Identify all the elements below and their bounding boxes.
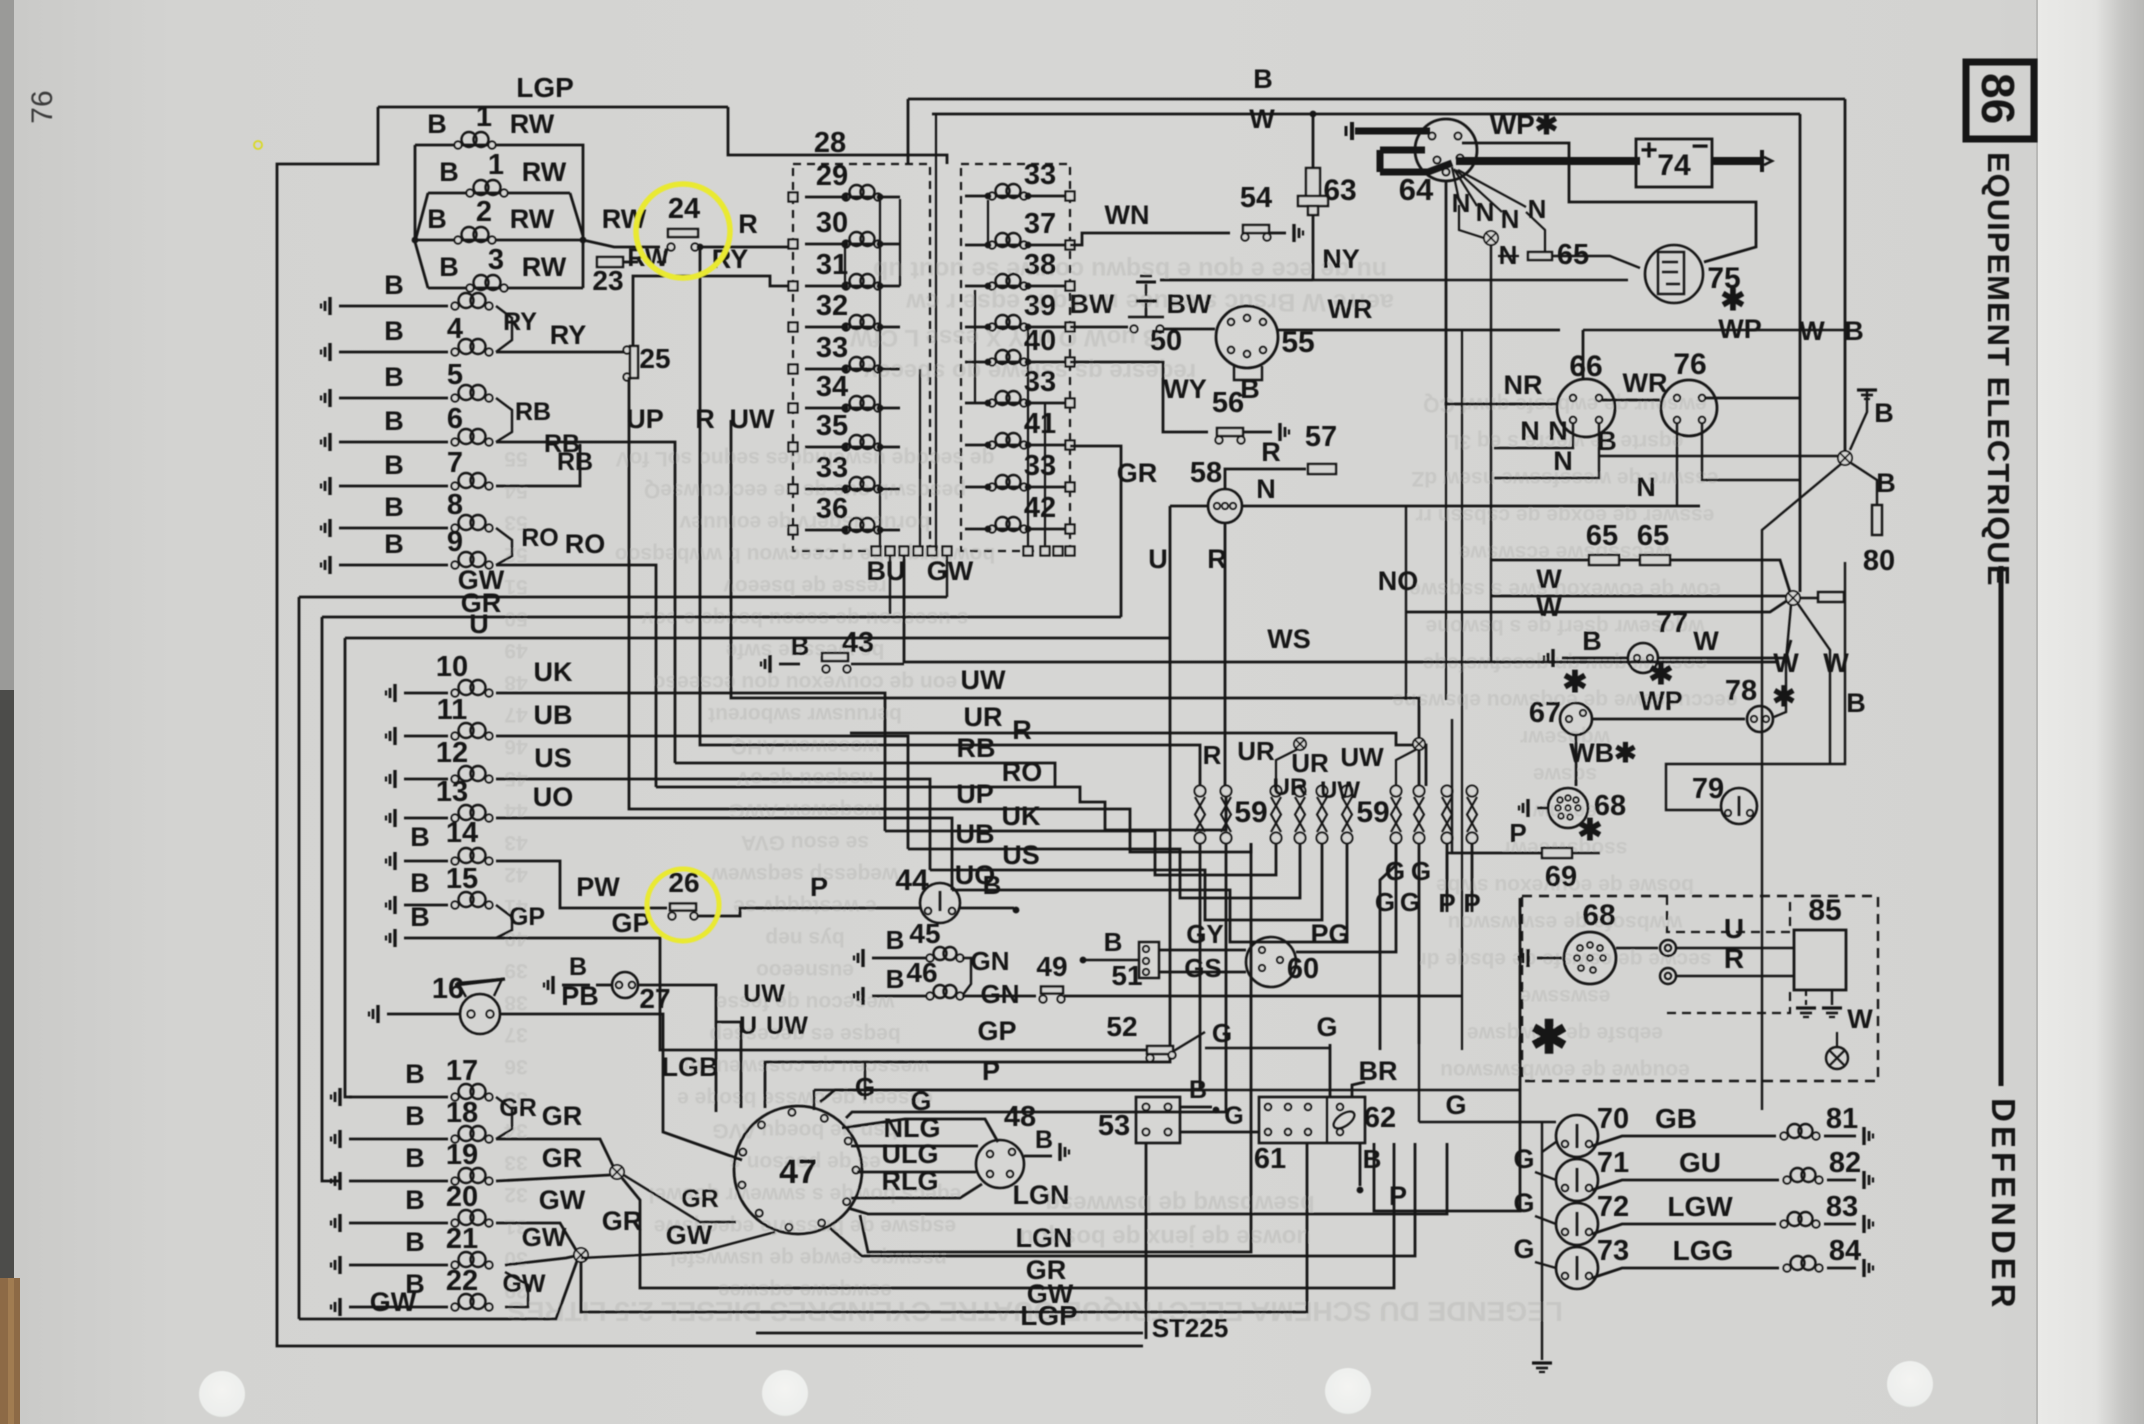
svg-text:34: 34	[816, 371, 848, 403]
svg-text:eon qe couvexou qou ecseeso: eon qe couvexou qou ecseeso	[653, 671, 958, 694]
fuse 20 row	[338, 1214, 341, 1232]
wire G riser to 61	[1329, 1044, 1332, 1097]
alternator 66	[1557, 379, 1615, 437]
svg-text:18: 18	[446, 1097, 478, 1129]
wire GR from 18/19 to junction	[496, 1139, 613, 1166]
punch hole 3	[1325, 1368, 1371, 1414]
left bus verticals	[298, 597, 301, 1319]
svg-text:P: P	[1463, 888, 1480, 918]
wire B to fuse 80	[1851, 463, 1877, 505]
fuse 45 row	[861, 949, 864, 967]
svg-text:eow qe eowexou swe s ssqswe: eow qe eowexou swe s ssqswe	[1409, 578, 1721, 601]
svg-text:65: 65	[1586, 520, 1618, 552]
svg-text:WP✱: WP✱	[1490, 109, 1559, 140]
fuse 21 row	[338, 1256, 341, 1274]
wire WN from block to ground	[1070, 233, 1230, 245]
svg-text:5: 5	[447, 359, 463, 391]
thick feed bar to 64	[1350, 122, 1354, 140]
svg-text:B: B	[886, 964, 905, 994]
wire ST225 from 53 down	[1145, 1143, 1148, 1339]
wire B from 66 to junction	[1599, 455, 1843, 457]
wire UO stack	[952, 843, 1347, 942]
svg-text:76: 76	[26, 90, 59, 123]
push switch 50	[1130, 325, 1137, 332]
junction X of W wires	[1786, 591, 1800, 605]
ground B right	[1857, 388, 1877, 391]
svg-text:59: 59	[1356, 796, 1389, 829]
wire B from 53	[1180, 1106, 1212, 1109]
wire R to fuse 57	[1225, 469, 1306, 490]
svg-text:GP: GP	[977, 1016, 1016, 1046]
connector 43 with B feed	[768, 655, 771, 673]
svg-text:U: U	[1148, 544, 1168, 574]
svg-text:ST225: ST225	[1152, 1313, 1229, 1343]
wire GR bottom from 47	[622, 1143, 1394, 1288]
dashed fuse block (right)	[961, 164, 1070, 551]
wire down from junction X	[1762, 464, 1841, 1110]
svg-text:85: 85	[1808, 894, 1841, 927]
svg-text:GR: GR	[681, 1185, 719, 1213]
svg-text:N: N	[1501, 204, 1520, 234]
wire WP* from 64	[1462, 143, 1756, 262]
svg-text:WS: WS	[1267, 624, 1311, 654]
junction X bottom-left	[574, 1248, 588, 1262]
svg-text:BU: BU	[867, 556, 906, 586]
svg-text:72: 72	[1597, 1191, 1629, 1223]
svg-text:GW: GW	[666, 1220, 713, 1250]
thick bar 64 to battery 74	[1456, 157, 1640, 165]
wire WR 66 to 76	[1602, 399, 1660, 402]
svg-text:✱: ✱	[1720, 284, 1745, 317]
svg-text:RY: RY	[712, 244, 749, 274]
N fan-out from 64	[1452, 167, 1459, 200]
svg-text:B: B	[405, 1227, 425, 1257]
wires W down to sender 78	[1774, 605, 1791, 717]
wire WS	[904, 556, 1779, 662]
grounds under 85	[1805, 990, 1807, 1005]
svg-text:R: R	[1207, 544, 1227, 574]
svg-text:13: 13	[436, 776, 468, 808]
wire GW into 47 bottom	[581, 1232, 775, 1258]
svg-text:30: 30	[816, 207, 848, 239]
svg-text:UW: UW	[766, 1012, 808, 1040]
coil 81 and ground	[1788, 1124, 1802, 1138]
fuse 35 in block 28	[805, 446, 900, 449]
svg-text:46: 46	[504, 735, 527, 758]
svg-text:GW: GW	[927, 556, 974, 586]
svg-text:24: 24	[668, 193, 700, 225]
svg-text:✱: ✱	[1577, 814, 1602, 847]
svg-text:46: 46	[906, 957, 937, 988]
svg-text:weqessp seqswew: weqessp seqswew	[711, 863, 899, 886]
thick loop bar	[1380, 147, 1425, 154]
svg-text:86: 86	[1972, 73, 2024, 124]
svg-text:EQUIPEMENT ELECTRIQUE: EQUIPEMENT ELECTRIQUE	[1981, 152, 2016, 586]
fuse 19 row	[338, 1172, 341, 1190]
svg-text:RW: RW	[522, 157, 567, 187]
svg-text:R: R	[1203, 740, 1222, 770]
ignition switch 55	[1216, 306, 1278, 368]
wire U down to lamp unit 47	[638, 985, 716, 1112]
svg-text:−: −	[1691, 130, 1709, 163]
wire LGW 72 to coil 83	[1592, 1224, 1776, 1234]
svg-text:bys nep: bys nep	[765, 927, 844, 950]
svg-text:B: B	[384, 406, 404, 436]
wire GW return to boundary	[299, 1261, 577, 1319]
fuse 33 in right block	[965, 486, 1070, 489]
bracket 17-18 GR	[496, 1097, 512, 1139]
wire NY	[1160, 279, 1313, 282]
fuse row 1b	[428, 192, 570, 195]
wire GY 51-60	[1159, 949, 1246, 952]
wire U from 58 into 47	[765, 506, 1170, 1108]
wire UW down to lamp unit 47	[716, 1022, 741, 1108]
svg-text:8: 8	[447, 489, 463, 521]
wires from 76 down	[1676, 424, 1678, 506]
yellow dot top-left	[254, 141, 262, 149]
wire UR stack	[850, 733, 1426, 786]
wire BR from 62	[1352, 1082, 1365, 1097]
svg-text:GR: GR	[602, 1206, 643, 1236]
svg-text:47: 47	[504, 703, 527, 726]
svg-text:77: 77	[1656, 607, 1688, 639]
svg-text:82: 82	[1829, 1147, 1861, 1179]
svg-text:54: 54	[1240, 182, 1272, 214]
wire N from 58 region	[1242, 505, 1700, 508]
fuse 33 in right block	[965, 402, 1070, 405]
svg-text:RB: RB	[957, 733, 996, 763]
wire from 64 area down to alternator 66	[1446, 181, 1558, 404]
svg-text:ULG: ULG	[882, 1139, 939, 1169]
svg-text:GW: GW	[539, 1185, 586, 1215]
wire R with ring terminal	[1660, 968, 1676, 984]
svg-text:G: G	[1411, 856, 1431, 886]
svg-text:LGB: LGB	[662, 1052, 719, 1082]
wires N under 66	[1494, 424, 1573, 448]
wire GW from 21 through junction	[505, 1256, 575, 1265]
svg-text:LGG: LGG	[1673, 1235, 1734, 1266]
svg-text:64: 64	[1399, 172, 1434, 207]
fuse 17 row	[338, 1088, 341, 1106]
lamp 70	[1556, 1115, 1598, 1157]
wire from 65 to regulator 75	[1552, 256, 1640, 268]
svg-text:16: 16	[432, 973, 464, 1005]
fuse 14 row	[393, 852, 396, 870]
svg-text:60: 60	[1287, 953, 1319, 985]
sender 77	[1551, 649, 1554, 667]
svg-text:R: R	[1724, 943, 1744, 974]
svg-text:GS: GS	[1184, 953, 1222, 983]
svg-text:62: 62	[1364, 1102, 1396, 1134]
svg-text:WR: WR	[1328, 294, 1373, 324]
svg-text:esswer qe eoxqe qe csbssn rr: esswer qe eoxqe qe csbssn rr	[1416, 504, 1715, 527]
connector 69	[1542, 848, 1572, 858]
svg-text:N: N	[1548, 416, 1568, 446]
svg-text:W: W	[1847, 1004, 1873, 1034]
svg-text:GR: GR	[542, 1143, 583, 1173]
block bottom terminals	[872, 547, 881, 556]
fuse 33 in right block	[965, 195, 1070, 198]
svg-text:✱: ✱	[1562, 666, 1587, 699]
spark/glow plug 63	[1312, 114, 1315, 168]
svg-text:69: 69	[1545, 861, 1577, 893]
wire R from switch 24 to fuse block row 30	[699, 246, 793, 249]
svg-text:B: B	[384, 492, 404, 522]
fuse group 1-3 left bracket	[414, 145, 417, 240]
svg-text:RW: RW	[627, 244, 669, 272]
wire UW stack	[731, 420, 1419, 786]
svg-text:RW: RW	[510, 204, 555, 234]
fuse 29 in block 28	[805, 196, 900, 199]
svg-text:11: 11	[437, 694, 468, 726]
svg-text:NO: NO	[1378, 566, 1419, 596]
fuse 8 row	[328, 519, 331, 537]
svg-text:37: 37	[1024, 208, 1056, 240]
wire UK stack	[885, 831, 1276, 875]
svg-text:84: 84	[1829, 1235, 1861, 1267]
wire UB stack	[908, 843, 1300, 898]
svg-text:14: 14	[446, 817, 478, 849]
svg-text:BW: BW	[1167, 289, 1212, 319]
svg-text:GW: GW	[370, 1287, 417, 1317]
wires P P below connectors	[1446, 843, 1449, 912]
wire LGP bottom	[756, 1332, 1143, 1335]
wire GW bottom	[581, 1143, 1307, 1312]
svg-text:B: B	[569, 953, 587, 981]
svg-text:B: B	[1874, 398, 1894, 428]
punch hole 4	[1887, 1361, 1933, 1407]
svg-text:15: 15	[446, 863, 478, 895]
wire GU 71 to coil 82	[1592, 1180, 1779, 1190]
svg-text:W: W	[1249, 104, 1275, 134]
bus B top	[908, 98, 1845, 101]
connector group 59 (left)	[1195, 786, 1206, 797]
svg-text:53: 53	[1098, 1110, 1130, 1142]
svg-text:54: 54	[504, 479, 528, 502]
svg-text:UR: UR	[1237, 736, 1275, 766]
svg-text:UW: UW	[743, 980, 785, 1008]
svg-text:B: B	[410, 822, 430, 852]
svg-text:68: 68	[1582, 899, 1615, 932]
svg-text:43: 43	[504, 831, 527, 854]
svg-text:35: 35	[816, 410, 848, 442]
svg-text:WR: WR	[1623, 368, 1668, 398]
svg-text:22: 22	[446, 1265, 478, 1297]
wire from 58 to U riser	[1170, 505, 1208, 508]
svg-text:47: 47	[779, 1153, 817, 1191]
svg-text:GU: GU	[1679, 1147, 1721, 1178]
wire LGN lower from 47	[830, 1143, 1415, 1256]
svg-text:71: 71	[1597, 1147, 1629, 1179]
fuse 11 row with UB output	[393, 727, 396, 745]
connector 25	[623, 346, 630, 353]
wire G from 52	[1205, 1047, 1330, 1049]
svg-text:✱: ✱	[1648, 658, 1673, 691]
wire RW from fuse group to switch 24	[583, 240, 660, 247]
svg-text:55: 55	[504, 447, 528, 470]
svg-text:B: B	[410, 868, 430, 898]
svg-text:66: 66	[1569, 350, 1602, 383]
svg-text:23: 23	[592, 265, 623, 296]
wire BW from block row 39	[1070, 326, 1128, 329]
svg-text:UK: UK	[534, 657, 573, 687]
svg-text:79: 79	[1692, 773, 1724, 805]
svg-text:7: 7	[447, 447, 463, 479]
punch hole 1	[199, 1371, 245, 1417]
fuse 30 in block 28	[805, 243, 900, 246]
wire RB from 6/7 to stack	[496, 442, 675, 763]
junction X GR bottom-left	[610, 1165, 624, 1179]
svg-text:W: W	[1536, 592, 1562, 622]
svg-text:beruuswr swboreut: beruuswr swboreut	[708, 703, 902, 726]
thick bar battery to terminal	[1712, 157, 1762, 165]
wire PG from 60	[1296, 843, 1396, 952]
svg-text:se esou GVA: se esou GVA	[741, 831, 869, 854]
wire W from 76 to W bus	[1704, 397, 1800, 400]
svg-text:49: 49	[504, 639, 527, 662]
regulator 75	[1645, 245, 1703, 303]
svg-text:B: B	[405, 1185, 425, 1215]
fuse 32 in block 28	[805, 326, 900, 329]
bus LGP top with label	[378, 106, 728, 109]
yellow highlighter circle around switch 26	[647, 869, 719, 941]
ground at bottom of feeder	[1532, 1361, 1552, 1364]
svg-text:56: 56	[1212, 387, 1244, 419]
fuse row B (above 4) with ground	[328, 297, 331, 315]
svg-text:P: P	[1509, 818, 1526, 848]
svg-text:81: 81	[1826, 1103, 1858, 1135]
svg-text:resse qe bseeov: resse qe bseeov	[723, 575, 887, 598]
wire GW from 20	[496, 1223, 576, 1250]
svg-text:27: 27	[639, 983, 670, 1014]
outer boundary of harness (left/bottom frame)	[277, 107, 1143, 1346]
svg-text:N: N	[1256, 474, 1276, 504]
svg-text:37: 37	[504, 1023, 527, 1046]
inner dashed bracket lower	[1667, 990, 1790, 1013]
svg-text:BR: BR	[1359, 1056, 1398, 1086]
fuse 15 row upper	[393, 896, 396, 914]
wire B from 62 down	[1359, 1143, 1362, 1186]
svg-text:GP: GP	[509, 903, 545, 931]
svg-text:36: 36	[816, 493, 848, 525]
wire US stack	[930, 843, 1322, 920]
svg-text:B: B	[1189, 1076, 1207, 1104]
svg-text:UW: UW	[730, 404, 775, 434]
punch hole 2	[762, 1370, 808, 1416]
svg-text:B: B	[1363, 1144, 1382, 1174]
fuse 12 row with US output	[393, 770, 396, 788]
svg-text:wwbsofe qe eswwswou: wwbsofe qe eswwswou	[1448, 911, 1684, 934]
relay 61/62	[1259, 1097, 1365, 1143]
svg-text:G: G	[1316, 1012, 1337, 1042]
fuse 22 row	[338, 1298, 341, 1316]
svg-text:UK: UK	[1002, 801, 1041, 831]
svg-text:PG: PG	[1310, 919, 1349, 949]
bus GW left	[299, 596, 947, 599]
svg-text:G: G	[1224, 1102, 1243, 1130]
svg-text:B: B	[1844, 316, 1864, 346]
wire RO stack	[656, 786, 1226, 830]
svg-text:B: B	[427, 204, 447, 234]
wire U with ring terminals	[1616, 947, 1658, 949]
svg-text:B: B	[405, 1143, 425, 1173]
svg-text:N: N	[1636, 472, 1656, 502]
fuse 9 row	[328, 556, 331, 574]
fuse row 3	[428, 287, 583, 290]
svg-text:RO: RO	[521, 524, 559, 552]
svg-text:LGN: LGN	[1013, 1180, 1070, 1210]
wire P from 26 to instrument 44	[697, 908, 921, 916]
svg-text:50: 50	[504, 607, 527, 630]
svg-text:N: N	[1553, 446, 1573, 476]
svg-text:RB: RB	[515, 398, 551, 426]
connector 59 riser hooks	[1276, 748, 1300, 786]
svg-text:21: 21	[446, 1223, 478, 1255]
fuse 15 row lower with GP output	[393, 929, 396, 947]
fuse row 2	[415, 239, 583, 242]
wire RY riser from connector 25	[633, 276, 793, 348]
svg-text:B: B	[983, 870, 1002, 900]
svg-text:GR: GR	[1117, 458, 1158, 488]
svg-text:33: 33	[504, 1151, 527, 1174]
wires W W to junction	[1491, 595, 1786, 598]
fuse 33 in block 28	[805, 368, 900, 371]
wire R stack	[700, 247, 1200, 786]
svg-text:WN: WN	[1105, 200, 1150, 230]
svg-text:US: US	[534, 743, 572, 773]
bus U left	[345, 637, 1170, 640]
svg-text:B: B	[1035, 1126, 1053, 1154]
wire B to 51	[1080, 957, 1087, 964]
svg-text:25: 25	[639, 343, 670, 374]
svg-text:4: 4	[447, 313, 463, 345]
svg-text:43: 43	[842, 627, 874, 659]
multi-pin connector 68	[1526, 799, 1529, 817]
fuse 36 in block 28	[805, 529, 900, 532]
fuse 13 row with UO output	[393, 809, 396, 827]
svg-text:73: 73	[1597, 1235, 1629, 1267]
svg-text:12: 12	[436, 737, 468, 769]
wire B ground from 48	[1024, 1155, 1052, 1158]
wire LGG 73 to coil 84	[1592, 1268, 1779, 1278]
svg-text:G: G	[1400, 887, 1420, 917]
svg-text:29: 29	[816, 160, 848, 192]
svg-text:RY: RY	[503, 308, 537, 336]
svg-text:W: W	[1536, 564, 1562, 594]
svg-text:67: 67	[1529, 697, 1561, 729]
fuse 10 row with UK output	[393, 684, 396, 702]
svg-text:R: R	[738, 209, 758, 239]
svg-text:eusneeoo: eusneeoo	[756, 959, 854, 982]
svg-text:G: G	[1375, 887, 1395, 917]
fuse 38 in right block	[965, 285, 1070, 288]
svg-text:UR: UR	[964, 702, 1003, 732]
wire GR from 19 to junction	[496, 1175, 610, 1181]
svg-text:B: B	[791, 631, 810, 661]
svg-text:31: 31	[816, 249, 848, 281]
svg-text:38: 38	[1024, 249, 1056, 281]
fuse 80	[1872, 505, 1882, 535]
wire G from 53 to 61	[1180, 1131, 1259, 1134]
svg-text:RB: RB	[557, 448, 593, 476]
svg-text:RY: RY	[550, 320, 587, 350]
wire G feeder vertical	[1541, 1122, 1543, 1360]
svg-text:B: B	[405, 1101, 425, 1131]
svg-text:U: U	[469, 609, 489, 639]
fuse 7 row	[328, 477, 331, 495]
svg-text:N: N	[1520, 416, 1540, 446]
svg-text:B: B	[384, 450, 404, 480]
